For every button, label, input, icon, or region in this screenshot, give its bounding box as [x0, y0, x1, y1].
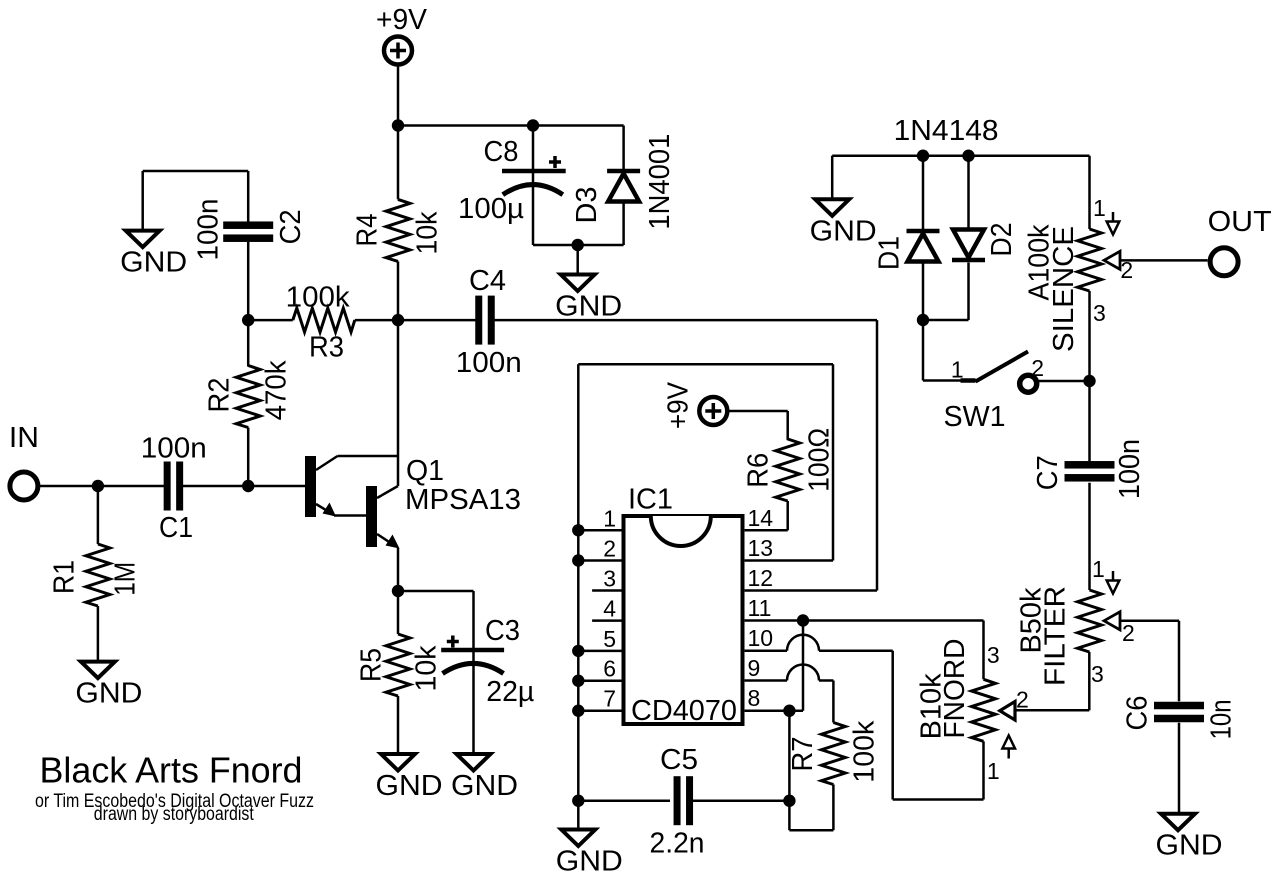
label 1N4148	[894, 115, 999, 147]
svg-text:+9V: +9V	[376, 4, 428, 36]
transistor Q1 MPSA13	[305, 455, 521, 549]
wire	[248, 319, 293, 322]
svg-text:GND: GND	[556, 846, 623, 877]
wire	[693, 799, 789, 802]
svg-text:C7: C7	[1032, 455, 1064, 490]
junction	[917, 314, 929, 326]
wire	[143, 170, 249, 173]
resistor R7	[787, 720, 880, 784]
svg-text:470k: 470k	[261, 360, 293, 420]
wire	[397, 696, 400, 754]
svg-text:C6: C6	[1121, 696, 1153, 731]
svg-text:1: 1	[951, 357, 964, 383]
wire	[533, 124, 624, 127]
junction	[242, 314, 254, 326]
svg-text:1: 1	[1093, 195, 1106, 221]
junction	[572, 645, 584, 657]
wire	[247, 320, 250, 366]
wire pin13 to rail	[578, 364, 833, 560]
svg-text:10k: 10k	[412, 211, 444, 254]
svg-text:100n: 100n	[456, 347, 522, 379]
junction	[527, 119, 539, 131]
junction	[572, 795, 584, 807]
wire	[967, 263, 970, 321]
wire	[397, 65, 400, 126]
svg-text:R3: R3	[309, 332, 344, 364]
junction	[917, 150, 929, 162]
wire	[97, 606, 100, 662]
svg-text:2: 2	[1122, 620, 1135, 646]
diode D3	[571, 134, 676, 230]
power +9V at R6	[663, 381, 728, 429]
pin 4	[592, 596, 621, 622]
potentiometer SILENCE	[1024, 195, 1134, 352]
svg-text:100k: 100k	[848, 720, 880, 782]
wire	[1088, 291, 1091, 381]
svg-text:10k: 10k	[410, 645, 442, 691]
switch SW1	[923, 352, 1044, 434]
svg-text:9: 9	[748, 655, 761, 681]
potentiometer FILTER	[1016, 556, 1135, 687]
svg-text:GND: GND	[75, 678, 142, 710]
svg-text:1: 1	[603, 505, 616, 531]
power +9V supply	[376, 4, 428, 65]
resistor R3	[286, 281, 355, 363]
junction	[92, 480, 104, 492]
svg-text:C8: C8	[484, 136, 519, 168]
svg-text:100Ω: 100Ω	[804, 428, 836, 492]
wire	[1038, 380, 1090, 383]
wire R7 to C5 node	[789, 785, 833, 831]
svg-text:22µ: 22µ	[486, 676, 534, 708]
wire	[398, 590, 474, 593]
svg-text:+9V: +9V	[663, 381, 695, 429]
svg-text:100n: 100n	[193, 199, 225, 261]
svg-text:CD4070: CD4070	[631, 695, 737, 727]
wire	[577, 801, 580, 830]
svg-text:D1: D1	[874, 236, 906, 270]
svg-text:10n: 10n	[1205, 699, 1237, 739]
wire C4 to IC pin 12	[492, 320, 877, 590]
wire	[1178, 723, 1181, 814]
capacitor C8	[458, 136, 566, 225]
wire FILTER3 to FNORD wiper	[1015, 652, 1089, 710]
svg-text:FNORD: FNORD	[939, 639, 971, 739]
junction	[242, 480, 254, 492]
resistor R2	[203, 360, 292, 428]
ground	[810, 199, 877, 247]
pin 12	[745, 565, 773, 591]
pin 8	[745, 685, 803, 711]
wire	[576, 245, 579, 275]
svg-text:D3: D3	[571, 187, 603, 224]
pin 1	[578, 505, 621, 531]
pin 9	[745, 655, 834, 681]
svg-text:SW1: SW1	[944, 401, 1006, 433]
junction	[1083, 375, 1095, 387]
ground	[120, 231, 187, 279]
svg-text:2.2n: 2.2n	[650, 828, 705, 860]
wire	[533, 244, 624, 247]
wire pin11 to FNORD3	[982, 621, 985, 680]
junction	[572, 524, 584, 536]
junction	[783, 705, 795, 717]
svg-text:GND: GND	[120, 247, 187, 279]
junction	[962, 150, 974, 162]
junction	[392, 585, 404, 597]
svg-text:5: 5	[603, 626, 616, 652]
svg-text:C2: C2	[275, 209, 307, 244]
svg-text:3: 3	[1091, 661, 1104, 687]
resistor R1	[49, 544, 142, 606]
junction	[572, 239, 584, 251]
ground	[376, 754, 443, 802]
svg-text:R7: R7	[787, 737, 819, 772]
svg-text:6: 6	[603, 656, 616, 682]
wire	[397, 548, 400, 591]
wire	[397, 261, 400, 320]
wire	[1088, 156, 1091, 229]
svg-text:100µ: 100µ	[458, 193, 524, 225]
svg-text:IC1: IC1	[628, 484, 673, 516]
wire	[922, 262, 925, 320]
ground	[75, 662, 142, 710]
wire R6 feed	[728, 411, 788, 440]
svg-text:GND: GND	[1156, 830, 1223, 862]
wire	[922, 320, 925, 381]
capacitor C7	[1032, 439, 1146, 499]
wire	[472, 591, 475, 754]
port IN	[9, 422, 39, 500]
junction	[797, 614, 809, 626]
svg-text:C1: C1	[159, 512, 193, 544]
wire	[622, 126, 625, 170]
svg-text:3: 3	[1093, 300, 1106, 326]
wire	[622, 202, 625, 245]
capacitor C3	[441, 615, 534, 708]
junction	[572, 554, 584, 566]
pin 2	[578, 536, 621, 562]
wire	[532, 126, 535, 246]
wire	[248, 485, 305, 488]
svg-text:100n: 100n	[1114, 439, 1146, 499]
junction	[392, 119, 404, 131]
wire	[398, 124, 533, 127]
ground	[555, 275, 622, 323]
capacitor C6	[1121, 696, 1237, 740]
svg-text:13: 13	[748, 535, 774, 561]
capacitor C5	[650, 744, 705, 860]
wire gnd drop	[831, 156, 834, 200]
diode D1	[874, 231, 940, 270]
wire	[98, 485, 164, 488]
wire	[183, 485, 248, 488]
svg-text:GND: GND	[376, 770, 443, 802]
wire FILTER wiper to C6	[1120, 621, 1179, 702]
svg-text:GND: GND	[810, 215, 877, 247]
title Black Arts Fnord	[35, 750, 314, 826]
pin 5	[578, 626, 621, 652]
capacitor C1	[141, 433, 207, 545]
wire	[786, 501, 789, 530]
wire wiper to OUT	[1120, 259, 1207, 262]
svg-text:100n: 100n	[141, 433, 207, 465]
svg-text:C5: C5	[660, 744, 698, 776]
junction	[392, 314, 404, 326]
svg-text:1N4001: 1N4001	[644, 134, 676, 230]
pin 13	[745, 535, 833, 561]
svg-text:100k: 100k	[286, 281, 351, 313]
port OUT	[1208, 206, 1272, 276]
potentiometer FNORD	[916, 639, 1029, 785]
svg-text:1: 1	[987, 758, 1000, 784]
svg-text:1: 1	[1092, 556, 1105, 582]
svg-text:GND: GND	[555, 291, 622, 323]
svg-text:R6: R6	[743, 453, 775, 488]
svg-text:8: 8	[748, 685, 761, 711]
svg-text:12: 12	[748, 565, 774, 591]
svg-text:OUT: OUT	[1208, 206, 1272, 238]
wire	[247, 428, 250, 487]
ground	[556, 830, 623, 877]
svg-text:3: 3	[987, 642, 1000, 668]
svg-text:IN: IN	[9, 422, 39, 454]
wire	[97, 486, 100, 544]
capacitor C4	[456, 265, 522, 379]
svg-text:14: 14	[748, 505, 774, 531]
pin 14	[745, 505, 788, 531]
wire top net	[832, 154, 1089, 157]
resistor R6	[743, 428, 836, 501]
svg-text:GND: GND	[451, 770, 518, 802]
svg-text:10: 10	[748, 625, 774, 651]
svg-text:SILENCE: SILENCE	[1048, 226, 1080, 352]
svg-text:4: 4	[603, 596, 616, 622]
wire pin9 to R7	[832, 681, 835, 723]
junction	[572, 705, 584, 717]
diode D2	[952, 223, 1018, 261]
junction	[783, 795, 795, 807]
svg-text:FILTER: FILTER	[1040, 586, 1072, 686]
wire	[247, 242, 250, 320]
ground	[451, 754, 518, 802]
svg-text:R5: R5	[356, 648, 388, 682]
svg-text:7: 7	[603, 686, 616, 712]
svg-text:2: 2	[1016, 686, 1029, 712]
wire	[1088, 483, 1091, 590]
svg-text:drawn by storyboardist: drawn by storyboardist	[94, 804, 255, 825]
wire	[923, 319, 969, 322]
resistor R5	[356, 634, 443, 696]
svg-text:Black Arts Fnord: Black Arts Fnord	[40, 750, 303, 791]
wire FNORD1 to pin10	[893, 651, 984, 800]
ground	[1156, 814, 1223, 862]
svg-text:1M: 1M	[110, 562, 142, 596]
wire	[397, 320, 400, 486]
svg-text:R1: R1	[49, 560, 81, 594]
pin 7	[578, 686, 621, 712]
pin 11	[745, 595, 984, 621]
svg-text:11: 11	[748, 595, 772, 621]
svg-text:2: 2	[1031, 355, 1044, 381]
svg-text:2: 2	[603, 536, 616, 562]
wire pin11 to pin8	[802, 621, 805, 711]
wire	[578, 799, 670, 802]
pin 10	[745, 625, 893, 651]
wire	[39, 485, 98, 488]
svg-text:C3: C3	[485, 615, 520, 647]
svg-text:Q1: Q1	[406, 455, 444, 487]
pin 6	[578, 656, 621, 682]
svg-text:C4: C4	[469, 265, 506, 297]
resistor R4	[352, 199, 444, 261]
IC U1 CD4070 body	[624, 484, 743, 728]
wire	[355, 319, 398, 322]
svg-text:MPSA13: MPSA13	[405, 484, 521, 516]
svg-text:3: 3	[603, 566, 616, 592]
wire pin8 to C5	[788, 711, 791, 801]
svg-text:R2: R2	[203, 378, 235, 413]
capacitor C2	[193, 199, 307, 261]
wire	[397, 126, 400, 200]
svg-text:1N4148: 1N4148	[894, 115, 999, 147]
wire	[398, 319, 478, 322]
junction	[572, 675, 584, 687]
wire	[247, 171, 250, 222]
wire ground rail	[577, 364, 580, 800]
wire	[967, 156, 970, 229]
svg-text:R4: R4	[352, 214, 384, 247]
wire	[397, 591, 400, 634]
pin 3	[592, 566, 621, 592]
wire	[1088, 381, 1091, 462]
wire	[141, 171, 144, 231]
wire	[922, 156, 925, 229]
svg-text:D2: D2	[986, 223, 1018, 257]
